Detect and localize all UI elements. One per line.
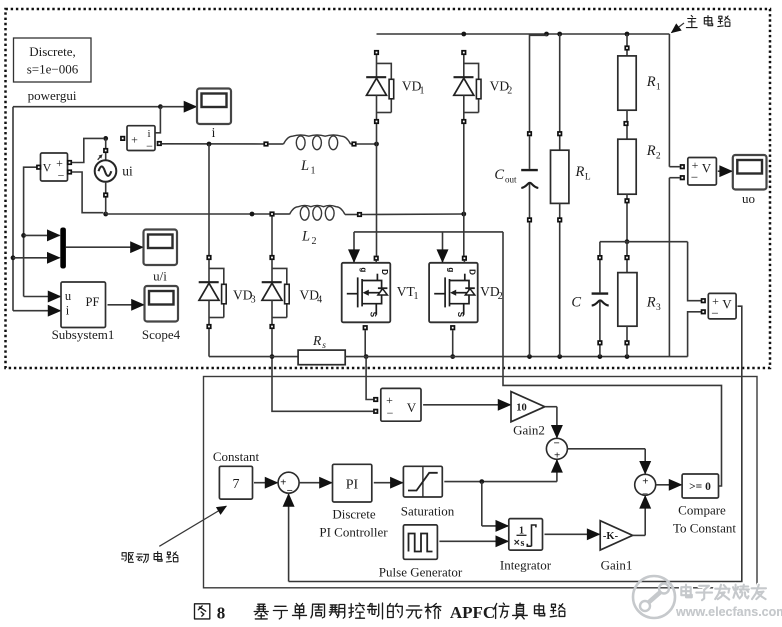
svg-text:8: 8 [217, 604, 226, 623]
svg-text:4: 4 [317, 295, 322, 306]
powergui block [14, 38, 92, 103]
svg-text:s: s [322, 341, 326, 351]
wire: L2 node down to VD4 [271, 216, 273, 255]
wire: C/R3 right edge to +V sense [688, 242, 702, 357]
svg-text:Gain1: Gain1 [601, 558, 633, 573]
diode VD3 [199, 255, 256, 329]
scope Scope4 [142, 286, 181, 342]
wire: bottom bus right [345, 354, 687, 359]
wire: +V output down to feedback [289, 306, 742, 581]
svg-text:−: − [58, 169, 65, 183]
wire: VD4 to sense -, through bus [270, 329, 374, 411]
sum junction (upper) [546, 437, 567, 461]
svg-text:D: D [467, 269, 476, 275]
svg-text:uo: uo [742, 191, 755, 206]
resistor Rs [298, 333, 345, 365]
diode VD4 [262, 255, 322, 329]
svg-text:L: L [585, 173, 591, 183]
svg-text:+: + [554, 449, 560, 461]
mosfet VT1 [342, 256, 419, 323]
wire: node A rail (C/R3 top) [600, 241, 688, 243]
saturation block [401, 466, 455, 518]
svg-text:1: 1 [420, 86, 425, 97]
main circuit dotted border [6, 9, 771, 368]
wire: V- to source bottom rail [72, 172, 108, 216]
svg-text:−: − [554, 437, 560, 449]
figure caption [195, 603, 565, 623]
resistor R1 [618, 34, 661, 110]
svg-text:s=1e−006: s=1e−006 [27, 62, 79, 77]
svg-text:www.elecfans.com: www.elecfans.com [675, 605, 782, 619]
watermark elecfans [633, 576, 782, 619]
svg-text:u/i: u/i [153, 269, 167, 284]
svg-text:V: V [43, 161, 52, 175]
svg-text:Integrator: Integrator [500, 558, 552, 573]
svg-text:g: g [359, 267, 368, 272]
svg-text:i: i [212, 125, 216, 140]
wire: i measurement output to scope tap [156, 107, 161, 133]
scope i [197, 89, 231, 141]
svg-text:−: − [691, 170, 698, 185]
constant block [213, 449, 260, 499]
wire: R1-R2 link [623, 110, 628, 139]
svg-text:powergui: powergui [28, 88, 77, 103]
svg-text:Scope4: Scope4 [142, 327, 181, 342]
mux [60, 228, 66, 269]
voltage measurement +V (uo) [669, 158, 716, 186]
wire: L1 node down to VD3 [208, 144, 210, 255]
inductor L2 [269, 205, 362, 247]
svg-text:3: 3 [251, 295, 256, 306]
svg-text:V: V [407, 400, 417, 415]
resistor RL [551, 34, 591, 357]
svg-text:S: S [456, 312, 465, 318]
svg-text:R: R [646, 295, 656, 311]
svg-text:+: + [131, 133, 138, 147]
capacitor Cout [494, 34, 546, 357]
svg-text:C: C [494, 167, 504, 183]
wire: VD3 to bottom bus [208, 329, 210, 357]
AC voltage source ui [95, 138, 133, 214]
svg-text:3: 3 [656, 303, 661, 313]
svg-text:2: 2 [507, 86, 512, 97]
svg-text:+: + [386, 393, 393, 407]
wire: current signal i to scope/mux/subsystem [11, 104, 197, 310]
compare to constant block [673, 474, 736, 536]
svg-text:>= 0: >= 0 [689, 481, 711, 493]
svg-text:Gain2: Gain2 [513, 423, 545, 438]
svg-text:1: 1 [414, 291, 419, 302]
wire: L2 to VD2 column [362, 212, 466, 217]
subsystem1 block [52, 282, 115, 342]
svg-text:−: − [642, 489, 648, 501]
wire: constant to sum [254, 482, 277, 484]
wire: source bottom rail to L2 [106, 212, 270, 217]
svg-text:Compare: Compare [678, 503, 726, 518]
svg-text:L: L [300, 158, 309, 174]
svg-text:s: s [521, 538, 525, 549]
svg-text:i: i [66, 304, 70, 318]
svg-text:1: 1 [311, 166, 316, 177]
wire: R2 down to node A [624, 194, 629, 244]
svg-text:APFC: APFC [450, 603, 495, 622]
svg-text:PF: PF [86, 295, 100, 309]
label 主电路 with arrow [672, 15, 730, 32]
svg-text:u: u [65, 289, 72, 303]
svg-text:L: L [301, 229, 310, 245]
wire: voltage signal u to mux/subsystem [21, 167, 60, 296]
svg-text:+: + [280, 477, 286, 489]
wire: gate drive bus from compare output [354, 232, 722, 486]
integrator block [500, 519, 552, 573]
svg-text:Discrete: Discrete [332, 507, 376, 522]
svg-text:g: g [446, 267, 455, 272]
svg-text:−: − [146, 139, 153, 153]
resistor R3 [618, 242, 661, 357]
mosfet VD2 (switch) [429, 256, 503, 323]
svg-text:2: 2 [312, 236, 317, 247]
svg-text:To Constant: To Constant [673, 521, 736, 536]
wire: mux output to scope u/i [66, 246, 143, 248]
svg-text:Saturation: Saturation [401, 504, 455, 519]
gain Gain1 [600, 521, 632, 573]
svg-text:D: D [380, 269, 389, 275]
svg-text:R: R [312, 333, 322, 348]
wire: sum to PI [299, 482, 332, 484]
svg-text:Subsystem1: Subsystem1 [52, 327, 115, 342]
wire: VD1 to VT1 drain [376, 124, 378, 256]
capacitor C [571, 242, 608, 357]
wire: VD2 to VT2 drain [463, 124, 465, 256]
sum junction (right) [635, 474, 656, 500]
wire: bottom bus left [209, 356, 298, 358]
svg-text:−: − [287, 485, 293, 497]
svg-text:Pulse Generator: Pulse Generator [379, 565, 463, 580]
inductor L1 [263, 135, 356, 177]
wire: pulse generator to integrator [439, 540, 508, 542]
svg-text:Constant: Constant [213, 449, 260, 464]
control section frame [204, 377, 758, 588]
PI controller block [319, 464, 388, 539]
gain Gain2 [511, 392, 545, 438]
wire: i- output to L1 node [162, 142, 266, 147]
svg-text:7: 7 [233, 477, 240, 492]
wire: L1 to VD1/VT1 column [356, 142, 379, 147]
svg-text:+: + [642, 475, 648, 487]
diode VD1 [366, 50, 424, 124]
wire: Gain1 to sum right (-) [633, 496, 646, 535]
sum junction (error) [278, 472, 299, 497]
scope u/i [144, 230, 178, 284]
svg-text:R: R [646, 74, 656, 90]
pulse generator block [379, 525, 463, 580]
current measurement block +i- [120, 126, 162, 153]
svg-text:V: V [722, 297, 732, 312]
svg-text:2: 2 [656, 152, 661, 162]
wire: Gain2 to sum (top) [545, 407, 557, 438]
wire: Rs right sense + tap [366, 357, 373, 400]
svg-text:PI Controller: PI Controller [319, 525, 388, 540]
svg-text:Discrete,: Discrete, [29, 44, 76, 59]
svg-text:−: − [711, 306, 718, 321]
wire: VT1 source to bus [363, 325, 369, 359]
svg-text:-K-: -K- [603, 531, 619, 542]
wire: sum right to compare [656, 484, 682, 486]
voltage measurement +V (one-cycle sense) [701, 293, 736, 320]
diode VD2 [454, 50, 513, 124]
label 驱动电路 with arrow [122, 506, 227, 562]
svg-text:10: 10 [516, 403, 527, 414]
svg-text:−: − [387, 406, 394, 420]
scope uo [733, 155, 767, 206]
svg-text:V: V [702, 161, 712, 176]
wire: PI to saturation [374, 482, 403, 484]
wire: VT2 source to bus [450, 325, 455, 359]
svg-text:1: 1 [656, 83, 661, 93]
wire: integrator to Gain1 [545, 533, 600, 535]
resistor R2 [618, 139, 661, 194]
svg-text:out: out [505, 175, 517, 185]
wire: V+ to source top node [72, 136, 108, 163]
svg-text:ui: ui [122, 164, 133, 179]
svg-text:R: R [646, 143, 656, 159]
wire: saturation to sum upper (+) and integrator [444, 460, 557, 526]
svg-text:PI: PI [346, 478, 359, 493]
voltage measurement V (control, across Rs) [373, 388, 421, 421]
svg-text:R: R [575, 164, 585, 180]
wire: top bus (output + rail) [377, 32, 670, 357]
wire: +V to scope uo [718, 170, 732, 172]
wire: sum upper to sum right [567, 449, 645, 474]
voltage measurement block V (source) [36, 153, 72, 183]
svg-text:S: S [368, 312, 377, 318]
wire: control V output to Gain2 [423, 404, 510, 406]
svg-text:2: 2 [498, 291, 503, 302]
wire: subsystem PF output to Scope4 [108, 304, 144, 306]
svg-text:C: C [571, 295, 581, 311]
